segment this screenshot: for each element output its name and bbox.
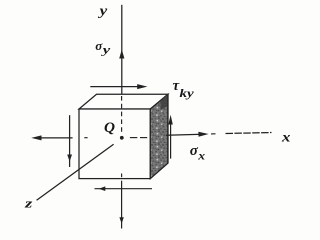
dashed x axis inside cube (left of Q) [84, 137, 87, 139]
right x-axis: sigma_x arrow pointing right [166, 134, 203, 135]
svg-text:Q: Q [104, 120, 116, 136]
node Q dot [120, 136, 124, 140]
top shear arrow (tau on top face, pointing right) [90, 86, 141, 88]
x axis dashed continuation [226, 133, 272, 134]
svg-text:σy: σy [95, 38, 111, 57]
dark right edge of shaded face [167, 94, 169, 163]
cube front face [79, 109, 150, 179]
right shear arrow (tau on right face, pointing up) [170, 121, 172, 159]
dashed y axis through cube [121, 96, 123, 134]
dark top corner of shaded face [161, 94, 168, 110]
dashed y axis below dot [121, 174, 123, 178]
left shear arrow (tau on left face, pointing down) [69, 115, 71, 167]
sigma_y arrowhead (stress arrow up along y axis) [119, 50, 124, 59]
svg-text:z: z [24, 197, 33, 211]
z axis [37, 144, 114, 200]
svg-text:τky: τky [173, 78, 195, 100]
bottom shear arrow (tau on bottom face, pointing left) [95, 188, 153, 190]
cube right face (shaded) [150, 94, 168, 178]
y axis [121, 5, 123, 95]
svg-text:y: y [97, 3, 108, 18]
bottom sigma_y arrow (pointing down) [121, 181, 123, 229]
cube top face [79, 94, 168, 109]
dashed x axis right of Q dot [130, 137, 137, 139]
svg-text:σx: σx [190, 143, 205, 162]
svg-text:x: x [281, 130, 291, 145]
left x-axis arrow (sigma_x left, pointing left) [38, 137, 73, 139]
